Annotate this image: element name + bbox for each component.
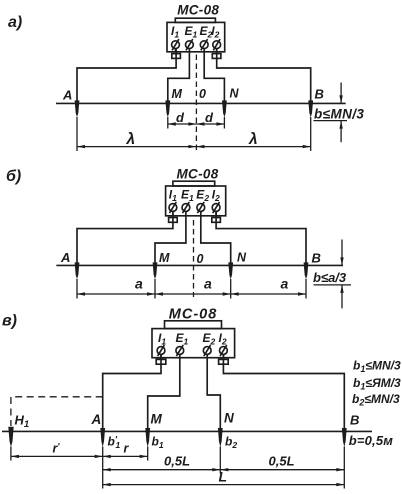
- device label MC-08 (fig v): [169, 307, 218, 323]
- connector foot under I1 (fig v): [156, 359, 166, 364]
- depth note line under B (fig a): [314, 120, 348, 122]
- svg-text:b1≤ЯМ/3: b1≤ЯМ/3: [353, 376, 401, 392]
- device label MC-08 (fig a): [177, 3, 219, 18]
- svg-text:b=0,5м: b=0,5м: [349, 433, 394, 448]
- dashed wire to auxiliary electrode H1 (fig v): [11, 397, 103, 426]
- terminal label I1 (fig a): [171, 24, 179, 40]
- dimension label lambda (left, fig a): [126, 131, 136, 148]
- electrode M (fig v): [145, 428, 150, 447]
- extension line below N (fig b): [230, 279, 232, 299]
- svg-text:d: d: [205, 110, 214, 125]
- node label A (fig b): [60, 250, 70, 265]
- dimension line r (fig v): [103, 455, 148, 458]
- svg-text:d: d: [176, 110, 185, 125]
- extension line below A (fig v): [102, 447, 104, 489]
- node label H1 (fig v): [15, 413, 30, 431]
- svg-text:a: a: [281, 276, 289, 292]
- terminal E1 (fig a): [186, 39, 194, 50]
- node label N (fig b): [237, 251, 247, 265]
- wire I2 to electrode B (fig v): [223, 354, 344, 430]
- wire E1 to electrode M (fig v): [148, 354, 180, 430]
- svg-text:A: A: [60, 250, 70, 265]
- dimension label a (left, fig b): [135, 276, 143, 292]
- electrode A (fig v): [100, 428, 105, 447]
- terminal I2 (fig b): [212, 202, 220, 216]
- wire E2 to electrode N (fig a): [204, 48, 224, 102]
- dimension label a (right, fig b): [281, 276, 289, 292]
- meter MC-08 lid (fig a): [175, 18, 215, 22]
- node label A (fig a): [62, 88, 72, 103]
- terminal label I1 (fig b): [169, 188, 177, 204]
- terminal E1 (fig b): [182, 202, 190, 213]
- electrode H1 (fig v): [8, 427, 13, 447]
- terminal E2 (fig b): [197, 202, 205, 213]
- node label O (fig a): [199, 87, 206, 101]
- wire E2 to electrode N (fig b): [201, 211, 231, 264]
- dimension line d-d (fig a): [168, 122, 225, 125]
- terminal label E1 (fig v): [176, 331, 189, 347]
- terminal label E2 (fig b): [196, 188, 209, 204]
- svg-text:B: B: [315, 87, 324, 102]
- svg-text:МС-08: МС-08: [177, 3, 219, 18]
- wire E1 to electrode M (fig b): [155, 211, 186, 264]
- electrode M (fig b): [153, 262, 158, 279]
- dimension label lambda (right, fig a): [248, 131, 258, 148]
- node label B (fig a): [315, 87, 324, 102]
- wire I2 to electrode B (fig b): [216, 211, 306, 264]
- connector foot under I2 (fig b): [212, 218, 221, 223]
- wire I1 to electrode A (fig b): [77, 211, 173, 264]
- wire E2 to electrode N (fig v): [207, 354, 220, 430]
- dimension label L (fig v): [219, 469, 228, 485]
- extension line below M (fig a): [167, 117, 169, 129]
- depth arrow above (fig a): [339, 83, 342, 104]
- meter MC-08 body (fig v): [152, 329, 235, 358]
- extension line below N (fig v): [219, 447, 221, 474]
- svg-text:a: a: [204, 276, 212, 292]
- depth label b<=a/3 (fig b): [313, 270, 347, 285]
- constraint b1<=MN/3 (fig v): [353, 359, 401, 375]
- svg-text:N: N: [237, 251, 247, 265]
- extension line below M (fig v): [147, 447, 149, 461]
- electrode B (fig v): [342, 428, 347, 447]
- node label B (fig v): [350, 413, 359, 428]
- svg-text:M: M: [151, 412, 163, 427]
- dimension label 0,5L right (fig v): [269, 454, 295, 469]
- electrode M (fig a): [165, 100, 170, 117]
- svg-text:0: 0: [199, 87, 206, 101]
- svg-text:МС-08: МС-08: [177, 167, 219, 182]
- svg-text:B: B: [350, 413, 359, 428]
- svg-text:0,5L: 0,5L: [164, 454, 190, 469]
- ground surface line (fig a): [56, 102, 346, 104]
- svg-text:б): б): [6, 168, 21, 185]
- terminal label E1 (fig b): [181, 188, 194, 204]
- svg-text:L: L: [219, 469, 228, 485]
- electrode N (fig b): [228, 262, 233, 279]
- extension line below H1 (fig v): [10, 447, 12, 461]
- electrode B (fig a): [308, 100, 313, 117]
- dimension line 0,5L right (fig v): [220, 468, 344, 471]
- svg-text:N: N: [224, 411, 234, 426]
- terminal E2 (fig a): [200, 39, 208, 50]
- terminal label I1 (fig v): [158, 331, 166, 347]
- figure label b): [6, 168, 21, 185]
- svg-text:в): в): [2, 313, 17, 330]
- svg-text:M: M: [159, 251, 170, 265]
- svg-text:0: 0: [197, 252, 204, 266]
- svg-text:B: B: [312, 251, 321, 266]
- dimension line r' (fig v): [11, 455, 103, 458]
- connector foot under I1 (fig b): [169, 218, 178, 223]
- extension line below A (fig b): [76, 279, 78, 299]
- node label M (fig b): [159, 251, 170, 265]
- extension line below N (fig a): [223, 117, 225, 129]
- ground surface line (fig b): [56, 264, 343, 266]
- electrode N (fig a): [222, 100, 227, 117]
- meter MC-08 body (fig a): [167, 22, 225, 51]
- figure label v): [2, 313, 17, 330]
- wire I1 to electrode A (fig a): [77, 48, 176, 102]
- dimension label r' (fig v): [53, 442, 61, 456]
- depth note line under B (fig b): [314, 284, 352, 286]
- constraint b2<=MN/3 (fig v): [352, 392, 400, 408]
- depth arrow above (fig b): [340, 240, 343, 266]
- dimension label 0,5L left (fig v): [164, 454, 190, 469]
- dimension line L (fig v): [103, 483, 345, 486]
- terminal label E2 (fig a): [200, 24, 213, 40]
- constraint b1<=AM/3 (fig v): [353, 376, 401, 392]
- svg-text:λ: λ: [248, 131, 258, 148]
- meter MC-08 lid (fig v): [165, 321, 222, 329]
- dimension label a (middle, fig b): [204, 276, 212, 292]
- extension line below B (fig b): [305, 279, 307, 299]
- electrode A (fig a): [75, 100, 80, 117]
- svg-text:b≤MN/3: b≤MN/3: [314, 107, 364, 122]
- dimension label d (left, fig a): [176, 110, 185, 125]
- connector foot under I2 (fig a): [212, 54, 221, 59]
- svg-text:а): а): [8, 14, 22, 31]
- terminal E2 (fig v): [203, 345, 211, 356]
- node label B (fig b): [312, 251, 321, 266]
- node label N (fig v): [224, 411, 234, 426]
- node label M (fig v): [151, 412, 163, 427]
- svg-text:N: N: [230, 87, 240, 101]
- extension line below A (fig a): [76, 117, 78, 151]
- terminal I2 (fig v): [220, 345, 228, 358]
- dimension line 0,5L left (fig v): [103, 468, 221, 471]
- depth label b1 (fig v): [152, 435, 164, 451]
- center line O (fig b, dashed): [193, 220, 195, 297]
- connector foot under I1 (fig a): [172, 54, 181, 59]
- wire I1 to electrode A (fig v): [103, 354, 161, 430]
- electrode A (fig b): [75, 262, 80, 279]
- extension line below M (fig b): [154, 279, 156, 299]
- dimension label d (right, fig a): [205, 110, 214, 125]
- terminal label E2 (fig v): [203, 331, 216, 347]
- ground surface line (fig v): [2, 430, 372, 432]
- dimension line a-a-a (fig b): [77, 292, 306, 295]
- svg-text:M: M: [172, 87, 183, 101]
- svg-text:λ: λ: [126, 131, 136, 148]
- device label MC-08 (fig b): [177, 167, 219, 182]
- svg-text:b≤a/3: b≤a/3: [313, 270, 347, 285]
- dimension line lambda-lambda (fig a): [77, 145, 311, 148]
- svg-text:a: a: [135, 276, 143, 292]
- svg-text:b1≤MN/3: b1≤MN/3: [353, 359, 401, 375]
- terminal label I2 (fig v): [219, 331, 227, 347]
- center line O (fig a, dashed): [195, 55, 197, 151]
- node label O (fig b): [197, 252, 204, 266]
- svg-text:0,5L: 0,5L: [269, 454, 295, 469]
- svg-text:A: A: [91, 412, 102, 427]
- terminal label I2 (fig b): [212, 188, 220, 204]
- terminal label I2 (fig a): [211, 24, 219, 40]
- wire I2 to electrode B (fig a): [217, 48, 311, 102]
- figure label a): [8, 14, 22, 31]
- depth arrow below (fig a): [339, 121, 342, 143]
- depth label b=0,5m (fig v): [349, 433, 394, 448]
- svg-text:b2≤MN/3: b2≤MN/3: [352, 392, 400, 408]
- svg-text:A: A: [62, 88, 72, 103]
- extension line below B (fig v): [343, 447, 345, 489]
- node label A (fig v): [91, 412, 102, 427]
- node label N (fig a): [230, 87, 240, 101]
- terminal I1 (fig a): [172, 39, 180, 52]
- depth arrow below (fig b): [340, 285, 343, 309]
- dimension label r (fig v): [124, 442, 130, 456]
- meter MC-08 body (fig b): [166, 186, 226, 216]
- electrode N (fig v): [218, 428, 223, 447]
- connector foot under I2 (fig v): [219, 359, 229, 364]
- meter MC-08 lid (fig b): [173, 181, 215, 186]
- electrode B (fig b): [304, 262, 309, 279]
- extension line below B (fig a): [310, 117, 312, 151]
- terminal label E1 (fig a): [185, 24, 198, 40]
- depth label b2 (fig v): [225, 435, 237, 451]
- terminal I2 (fig a): [213, 39, 221, 52]
- terminal I1 (fig b): [169, 202, 177, 216]
- depth label b'1 (fig v): [108, 435, 121, 451]
- terminal I1 (fig v): [157, 345, 165, 358]
- node label M (fig a): [172, 87, 183, 101]
- depth label b<=MN/3 (fig a): [314, 107, 364, 122]
- wire E1 to electrode M (fig a): [168, 48, 190, 102]
- terminal E1 (fig v): [176, 345, 184, 356]
